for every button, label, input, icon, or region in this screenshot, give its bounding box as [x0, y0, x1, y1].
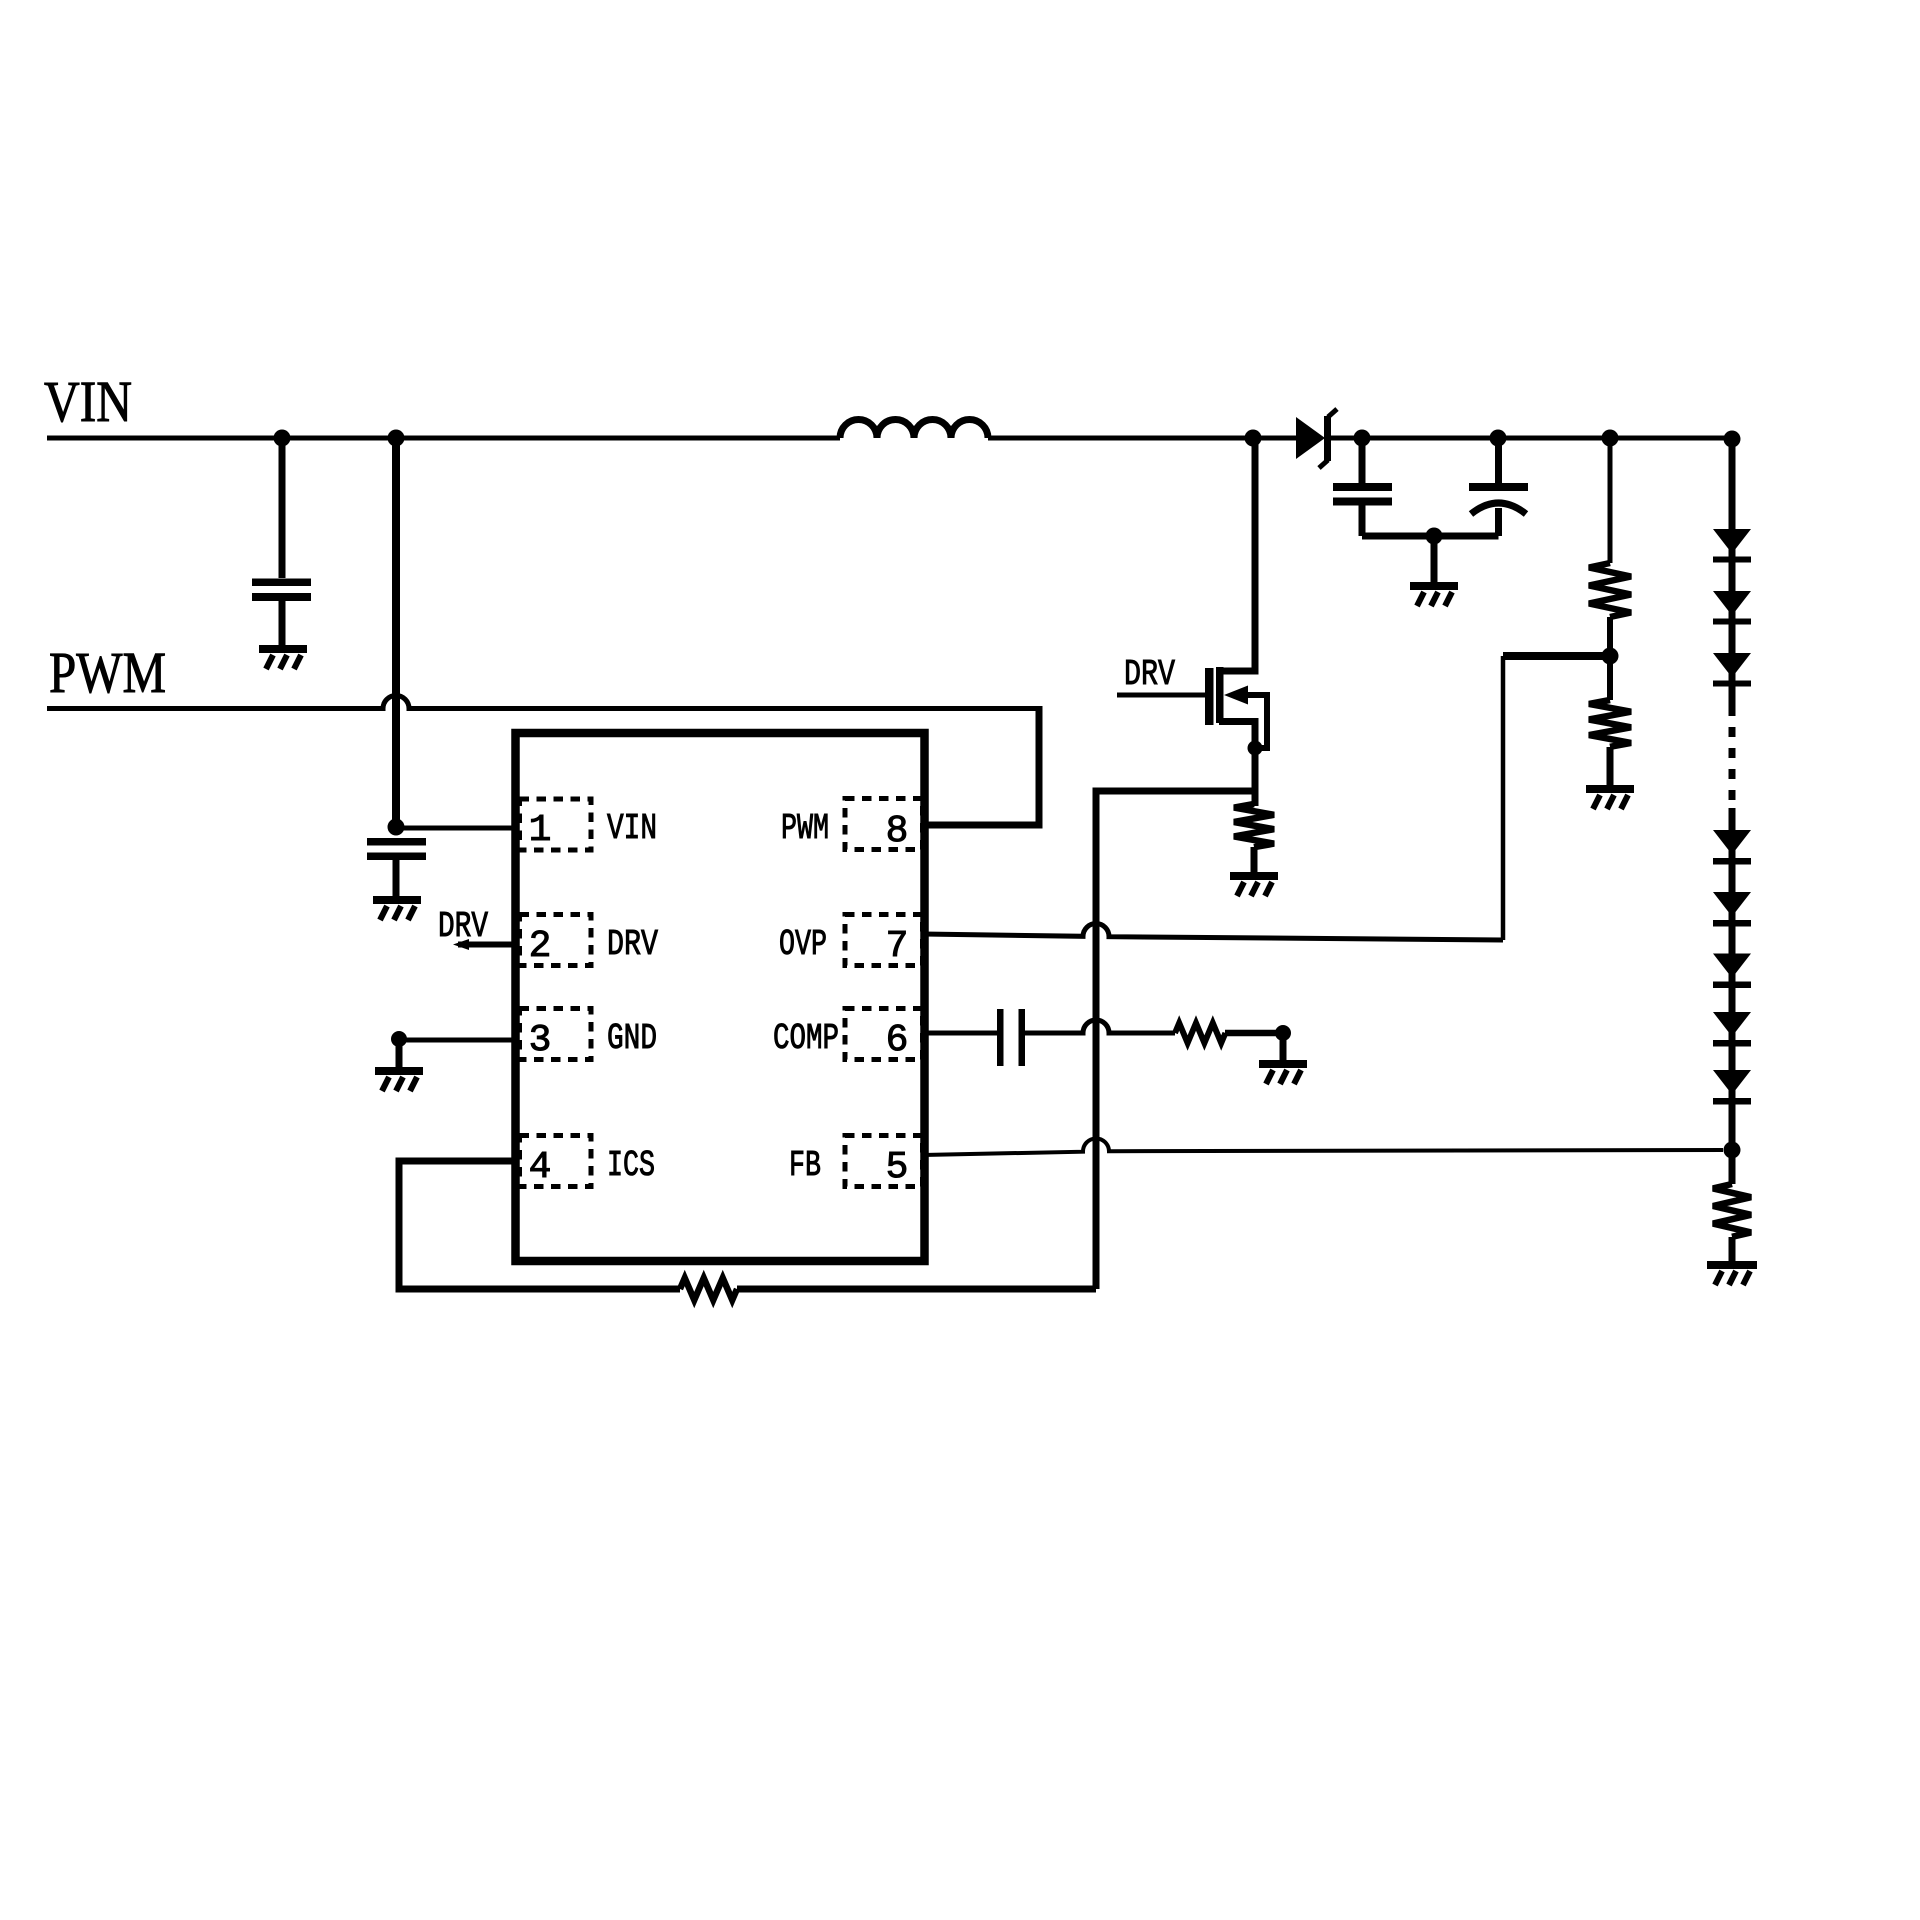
ground for LED string — [1707, 1261, 1757, 1285]
svg-text:GND: GND — [607, 1018, 657, 1059]
wire sense resistor stems — [1251, 847, 1258, 872]
svg-text:DRV: DRV — [607, 924, 658, 965]
capacitor C2 bypass — [367, 838, 426, 896]
node drain junction — [1245, 430, 1262, 447]
LED D4 — [1713, 653, 1751, 687]
LED D7 — [1713, 954, 1751, 989]
wire OVP top link — [1503, 652, 1610, 660]
pin 8 box — [845, 799, 923, 850]
IC U1 body — [516, 733, 925, 1261]
svg-text:5: 5 — [886, 1146, 909, 1189]
svg-text:PWM: PWM — [49, 640, 166, 705]
ground for comp — [1259, 1033, 1307, 1084]
channel bar — [1216, 667, 1224, 723]
svg-text:FB: FB — [789, 1145, 821, 1186]
node FB LED junction — [1724, 1142, 1741, 1159]
wire COMP right — [1225, 1030, 1283, 1037]
pin 2 box — [520, 915, 592, 966]
wire LED string dashed — [1729, 706, 1736, 808]
resistor R divider bottom — [1589, 700, 1631, 747]
ground for output caps — [1410, 536, 1458, 606]
node VIN cap junction — [388, 819, 405, 836]
diode D1 — [1296, 409, 1337, 468]
svg-text:7: 7 — [886, 925, 909, 968]
svg-text:8: 8 — [886, 810, 909, 853]
wire sense vertical — [1096, 791, 1255, 1289]
svg-text:COMP: COMP — [773, 1018, 839, 1059]
wire pin3 GND — [399, 1038, 513, 1043]
node cap C4 junction — [1490, 430, 1507, 447]
resistor R comp — [1175, 1023, 1225, 1043]
svg-text:DRV: DRV — [1124, 654, 1175, 695]
ground for divider — [1586, 785, 1634, 809]
svg-text:OVP: OVP — [779, 924, 827, 965]
svg-text:2: 2 — [529, 925, 552, 968]
wire pin1 VIN — [396, 826, 513, 831]
LED D5 — [1713, 830, 1751, 865]
wire LED resistor stem — [1729, 1237, 1736, 1261]
svg-text:4: 4 — [529, 1146, 552, 1189]
wire LED string bottom — [1729, 808, 1736, 1184]
wire COMP mid with hop — [1025, 1020, 1175, 1033]
capacitor C3 output — [1333, 438, 1392, 536]
pin 7 box — [845, 915, 923, 966]
svg-text:3: 3 — [529, 1019, 552, 1062]
resistor R LED sense — [1713, 1184, 1751, 1237]
resistor R sense — [1234, 804, 1274, 847]
LED D6 — [1713, 892, 1751, 927]
wire COMP left — [923, 1031, 998, 1036]
svg-text:DRV: DRV — [438, 906, 488, 947]
arrow DRV stub — [453, 939, 469, 950]
svg-text:6: 6 — [886, 1019, 909, 1062]
resistor R divider top — [1589, 563, 1631, 617]
drain lead — [1219, 438, 1255, 671]
body arrow — [1224, 686, 1248, 705]
ground for pin3 — [375, 1039, 423, 1091]
wire PWM rail with hop — [47, 696, 1039, 709]
source lead — [1219, 722, 1255, 792]
wire DRV stub — [458, 942, 513, 948]
LED D3 — [1713, 591, 1751, 625]
pin 6 box — [845, 1009, 923, 1060]
wire VIN rail right — [1331, 436, 1732, 441]
node LED string junction — [1724, 431, 1741, 448]
wire PWM corner to pin 8 — [923, 706, 1039, 825]
wire OVP with hop — [923, 923, 1503, 940]
node input cap junction — [274, 430, 291, 447]
node divider junction — [1602, 430, 1619, 447]
capacitor C5 comp — [997, 1009, 1025, 1066]
svg-text:1: 1 — [529, 809, 552, 852]
node cap C3 junction — [1354, 430, 1371, 447]
inductor L1 — [840, 420, 988, 439]
wire divider mid stem — [1607, 617, 1613, 700]
ground for sense resistor — [1230, 872, 1278, 896]
wire FB with hop — [923, 1138, 1723, 1155]
svg-text:VIN: VIN — [44, 369, 132, 434]
pin 5 box — [845, 1136, 923, 1187]
body wire — [1242, 695, 1267, 748]
svg-text:ICS: ICS — [607, 1145, 655, 1186]
wire VIN rail mid — [988, 436, 1296, 441]
wire LED string top — [1729, 439, 1736, 706]
wire OVP riser — [1501, 656, 1506, 940]
wire pin4 ICS — [399, 1161, 680, 1289]
gate bar — [1205, 668, 1214, 725]
LED D2 — [1713, 529, 1751, 563]
pin 1 box — [520, 799, 592, 850]
node source junction — [1248, 741, 1263, 756]
wire divider top stem — [1608, 438, 1613, 563]
wire VIN drop at x=396 — [392, 438, 400, 827]
resistor R ICS — [680, 1278, 737, 1300]
wire ICS to sense node — [737, 1286, 1096, 1293]
transistor Q1 MOSFET — [1117, 438, 1267, 791]
node GND junction — [391, 1031, 407, 1047]
LED D9 — [1713, 1070, 1751, 1105]
node comp ground junction — [1275, 1025, 1291, 1041]
pin 4 box — [520, 1136, 592, 1187]
node VIN drop junction — [388, 430, 405, 447]
LED D8 — [1713, 1012, 1751, 1047]
pin 3 box — [520, 1009, 592, 1060]
gate wire — [1117, 693, 1206, 698]
node caps ground junction — [1426, 528, 1443, 545]
ground for C2 — [373, 896, 421, 920]
capacitor C4 output electrolytic — [1469, 438, 1528, 536]
wire VIN rail left — [47, 436, 840, 441]
svg-text:VIN: VIN — [607, 808, 657, 849]
capacitor C1 input — [252, 438, 311, 645]
wire source to resistor — [1252, 791, 1259, 806]
wire output caps bottom — [1362, 533, 1499, 540]
ground for C1 — [259, 645, 307, 669]
node divider mid junction — [1602, 648, 1619, 665]
wire divider bottom stem — [1607, 747, 1614, 785]
svg-text:PWM: PWM — [781, 808, 829, 849]
